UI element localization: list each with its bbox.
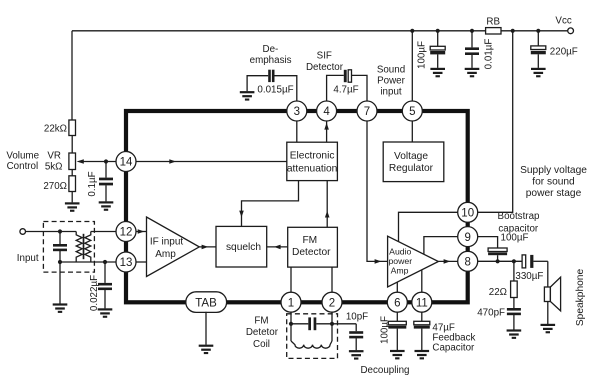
op-amp IF input Amp [147, 217, 200, 277]
svg-text:Control: Control [7, 161, 39, 172]
wire pin 2 down into coil box [331, 312, 333, 341]
capacitor 0.01uF [471, 31, 473, 48]
wire pin 3 to attenuation box [296, 121, 298, 142]
pin 10 [458, 202, 478, 222]
wire input to pin 12 [26, 231, 117, 233]
svg-text:1: 1 [288, 297, 294, 309]
pin 14 [116, 152, 136, 172]
pin 3 [287, 101, 307, 121]
svg-text:Electronic: Electronic [290, 151, 335, 162]
ground below TAB [199, 345, 214, 355]
wire rail down to pin 10 [478, 31, 513, 213]
inductor FM detector coil [291, 341, 332, 348]
svg-text:FM: FM [302, 235, 317, 246]
node junction bootstrap/pin8 [496, 259, 500, 263]
node junction 22ohm branch [512, 259, 516, 263]
svg-text:10pF: 10pF [346, 311, 368, 322]
capacitor 100uF decoupling [396, 312, 398, 321]
capacitor 0.015uF (de-emphasis) [272, 70, 275, 82]
ground below 10pF [349, 350, 364, 360]
wire pin 7 down to audio amp [367, 121, 388, 261]
svg-text:emphasis: emphasis [250, 55, 292, 66]
wire pin 5 to voltage regulator [411, 121, 413, 142]
svg-text:14: 14 [120, 157, 133, 169]
pin 6 [387, 292, 407, 312]
svg-text:Sound: Sound [377, 64, 405, 75]
block squelch [216, 226, 267, 267]
wire pin 8 row [478, 260, 522, 262]
resistor 22k [69, 120, 76, 136]
pin 9 [458, 227, 478, 247]
svg-text:RB: RB [486, 16, 500, 27]
wire Vcc top rail left segment [72, 30, 486, 32]
terminal Input [20, 229, 26, 235]
svg-text:TAB: TAB [195, 298, 217, 310]
wire left branch down to volume divider [71, 31, 73, 120]
resistor 270 [69, 176, 76, 192]
svg-text:330µF: 330µF [515, 271, 543, 282]
capacitor 470pF [513, 298, 515, 309]
svg-text:12: 12 [120, 227, 133, 239]
svg-text:squelch: squelch [226, 242, 261, 253]
ground below 270 [65, 202, 80, 212]
svg-text:9: 9 [464, 232, 470, 244]
wire pin 12 to IF amp [136, 231, 147, 233]
capacitor 100uF (top rail) [437, 31, 439, 47]
svg-text:Coil: Coil [253, 339, 270, 350]
wire attenuation box to pin 4 [326, 121, 328, 142]
svg-text:Decoupling: Decoupling [360, 365, 409, 376]
node junction rail/pin5 [410, 29, 414, 33]
svg-text:220µF: 220µF [550, 46, 578, 57]
ground below 100uF decoupling [390, 350, 405, 360]
ground below 470pF [507, 329, 522, 339]
node junction cap bottom [58, 260, 62, 264]
terminal Vcc [568, 28, 574, 34]
svg-text:11: 11 [416, 297, 428, 309]
wire IF amp to squelch [199, 246, 216, 248]
svg-text:FM: FM [254, 315, 268, 326]
wire pin5 to rail [411, 31, 413, 101]
capacitor 4.7uF (SIF) bracket pin4 to pin7 [327, 75, 344, 101]
block Voltage Regulator [383, 142, 444, 182]
input tuned circuit dashed box [43, 222, 94, 273]
wire FM detector to pin 2 [331, 267, 333, 292]
pin 11 [412, 292, 432, 312]
svg-text:Speakphone: Speakphone [575, 269, 586, 327]
wire pin 13 to IF amp [136, 261, 147, 263]
svg-text:5: 5 [409, 106, 415, 118]
wire FM detector to squelch [267, 246, 288, 248]
resistor 22 ohm [513, 261, 515, 281]
svg-text:10: 10 [461, 208, 474, 220]
svg-text:VR: VR [47, 150, 61, 161]
svg-text:22Ω: 22Ω [489, 287, 507, 298]
transformer input IFT primary [76, 232, 82, 263]
svg-text:0.1µF: 0.1µF [87, 171, 98, 196]
node junction rail/pin10 drop [511, 29, 515, 33]
svg-text:Power: Power [377, 76, 406, 87]
svg-text:22kΩ: 22kΩ [44, 124, 67, 135]
svg-text:Vcc: Vcc [555, 16, 571, 27]
svg-text:270Ω: 270Ω [43, 181, 67, 192]
resistor RB [486, 28, 501, 34]
ground input tank [53, 303, 68, 313]
capacitor 0.1uF [105, 162, 107, 178]
svg-text:Supply voltage: Supply voltage [520, 165, 587, 176]
node junction rail/0.01uF [470, 29, 474, 33]
svg-text:7: 7 [364, 106, 370, 118]
speaker driver box [544, 287, 550, 302]
wire VR to 270 [71, 170, 73, 176]
node junction 0.022uF [103, 260, 107, 264]
ground below 0.022uF [98, 308, 113, 318]
svg-text:Capacitor: Capacitor [432, 342, 475, 353]
svg-text:0.01µF: 0.01µF [484, 39, 495, 70]
svg-text:Input: Input [17, 253, 39, 264]
svg-text:De-: De- [263, 44, 279, 55]
ground below 0.1uF [99, 201, 114, 211]
wire TAB to ground [205, 312, 207, 345]
ground below 47uF [415, 350, 430, 360]
svg-text:input: input [380, 86, 402, 97]
pin TAB [186, 292, 227, 313]
wire 22k to VR [71, 136, 73, 154]
capacitor 0.022uF [104, 262, 106, 283]
FM detector coil dashed box [287, 314, 338, 359]
svg-text:attenuation: attenuation [287, 164, 337, 175]
svg-text:for sound: for sound [532, 176, 575, 187]
svg-text:100µF: 100µF [379, 316, 390, 344]
capacitor 47uF feedback [421, 312, 423, 321]
svg-text:2: 2 [329, 297, 335, 309]
wire 270 to ground [71, 192, 73, 203]
svg-text:3: 3 [294, 106, 300, 118]
block Electronic attenuation [287, 142, 338, 180]
pin 4 [317, 101, 337, 121]
speaker horn [550, 277, 560, 311]
pin 13 [116, 252, 136, 272]
pin 8 [458, 251, 478, 271]
svg-text:0.022µF: 0.022µF [89, 275, 100, 311]
svg-text:4.7µF: 4.7µF [333, 84, 358, 95]
block FM Detector [288, 227, 338, 267]
wire pin 14 to attenuation box [136, 161, 287, 163]
svg-text:100µF: 100µF [417, 41, 428, 69]
svg-text:Detetor: Detetor [246, 327, 279, 338]
capacitor 10pF [355, 324, 357, 331]
svg-text:Amp: Amp [391, 265, 409, 275]
svg-text:Regulator: Regulator [389, 163, 434, 174]
ground below 100uF [430, 68, 445, 78]
ground de-emphasis [240, 91, 255, 101]
capacitor 100uF bootstrap [488, 248, 507, 252]
svg-text:Detector: Detector [306, 62, 344, 73]
pin 2 [322, 292, 342, 312]
node junction pin2/coil cap [330, 322, 334, 326]
svg-text:0.015µF: 0.015µF [257, 84, 293, 95]
capacitor FM detector tank [291, 323, 308, 325]
transformer input IFT core [83, 234, 85, 259]
svg-text:8: 8 [464, 257, 470, 269]
svg-text:Audio: Audio [389, 246, 411, 256]
wire audio amp to pin 11 [421, 270, 423, 292]
svg-text:6: 6 [394, 297, 400, 309]
svg-text:SIF: SIF [317, 50, 332, 61]
wire FM detector to attenuation [326, 181, 328, 228]
wire 330uF to speaker [547, 261, 549, 324]
wire Vcc top rail right segment [501, 30, 568, 32]
svg-text:power: power [388, 256, 412, 266]
pin 7 [357, 101, 377, 121]
svg-text:13: 13 [120, 257, 133, 269]
op-amp Audio power Amp [388, 236, 439, 287]
wire pin 1 down into coil box [290, 312, 292, 341]
wire FM detector to pin 1 [290, 267, 292, 292]
potentiometer VR 5k [69, 153, 76, 170]
wire attenuation to squelch [242, 181, 299, 227]
ground below 220uF [531, 68, 546, 78]
ground below 0.01uF [465, 68, 480, 78]
svg-text:Detector: Detector [292, 247, 331, 258]
svg-text:power stage: power stage [526, 188, 582, 199]
node junction input/cap top [58, 229, 62, 233]
svg-text:Volume: Volume [6, 150, 39, 161]
pin 1 [281, 292, 301, 312]
wire audio amp to pin 10 (bootstrap) [399, 212, 458, 242]
svg-text:100µF: 100µF [501, 233, 529, 244]
IC package outline [126, 111, 468, 302]
wire tank bottom to ground [59, 262, 61, 304]
svg-text:IF input: IF input [150, 236, 184, 247]
svg-text:4: 4 [323, 106, 330, 118]
svg-text:5kΩ: 5kΩ [45, 161, 63, 172]
node junction rail/100uF [436, 29, 440, 33]
pin 12 [116, 222, 136, 242]
transformer input IFT secondary [85, 232, 91, 263]
node junction rail/220uF [536, 29, 540, 33]
svg-text:Bootstrap: Bootstrap [498, 211, 540, 222]
wire audio amp to pin 6 [396, 282, 398, 292]
svg-text:Amp: Amp [155, 249, 176, 260]
wire audio amp to pin 8 [438, 260, 457, 262]
de-emphasis network wire from pin 3 [275, 76, 297, 101]
capacitor 220uF [537, 31, 539, 46]
node junction pin1/coil cap [289, 322, 293, 326]
wire pin 9 to bootstrap cap [478, 237, 498, 248]
wire audio amp to pin 9 [424, 237, 458, 255]
wiper arrow into VR [83, 161, 117, 163]
capacitor 330uF (series) [522, 255, 526, 268]
node junction wiper/0.1uF [104, 159, 108, 163]
ground speaker [541, 324, 556, 334]
svg-text:470pF: 470pF [477, 308, 505, 319]
capacitor input tank [59, 232, 61, 245]
wire tank bottom to pin 13 [60, 261, 116, 263]
svg-text:Voltage: Voltage [394, 151, 428, 162]
pin 5 [402, 101, 422, 121]
